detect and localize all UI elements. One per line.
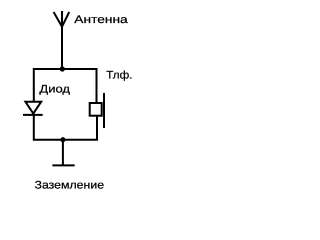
wire bottom (left branch down, bottom rail, right branch up)	[34, 116, 97, 140]
antenna W1	[54, 11, 70, 27]
ground	[52, 164, 74, 166]
diode VD1	[23, 102, 43, 115]
wire ground lead	[62, 140, 64, 166]
node junction bottom	[61, 138, 65, 142]
svg-text:Антенна: Антенна	[74, 14, 128, 26]
wire antenna lead	[61, 27, 63, 70]
svg-text:Заземление: Заземление	[35, 180, 105, 192]
telephone BF1	[90, 93, 104, 128]
node junction top	[60, 67, 64, 71]
svg-text:Диод: Диод	[39, 84, 70, 96]
wire top (left branch up, top rail, right branch down)	[34, 69, 97, 103]
svg-text:Тлф.: Тлф.	[106, 69, 132, 81]
